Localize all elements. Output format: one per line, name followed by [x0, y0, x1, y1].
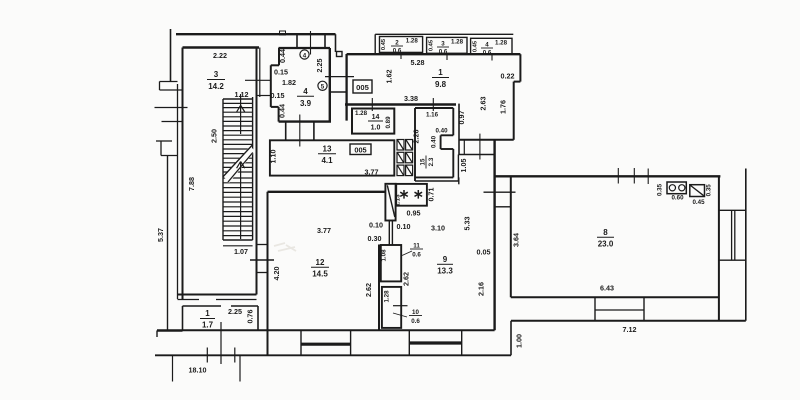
hall 005 left wall: [345, 54, 347, 121]
svg-text:3.10: 3.10: [431, 224, 445, 233]
svg-text:1.07: 1.07: [234, 247, 248, 256]
room 8 top wall: [495, 175, 721, 177]
bathroom labels: [395, 188, 436, 218]
bottom dimension ticks: [173, 322, 241, 382]
svg-text:2.62: 2.62: [402, 272, 411, 286]
svg-text:0.10: 0.10: [397, 222, 411, 231]
step wall from main bottom to room 8 block: [510, 321, 512, 356]
room 13 labels: [269, 145, 379, 177]
closet 3 box: [427, 37, 467, 53]
svg-text:10: 10: [412, 309, 419, 316]
svg-text:2.16: 2.16: [477, 282, 486, 296]
lobby walls below room 4: [286, 115, 314, 147]
svg-text:2.22: 2.22: [213, 51, 227, 60]
room 12 right wall: [378, 245, 380, 331]
tick room 10 right wall: [393, 305, 408, 307]
room 9 label: [437, 255, 453, 276]
wall top outer: [176, 31, 336, 35]
closet ticks: [401, 52, 492, 61]
svg-text:0.22: 0.22: [501, 72, 515, 81]
svg-text:1.12: 1.12: [235, 90, 249, 99]
circled 4: [300, 50, 309, 59]
left facade stub c: [156, 141, 178, 156]
svg-text:0.44: 0.44: [278, 49, 287, 63]
svg-text:1.05: 1.05: [459, 159, 468, 173]
svg-text:5: 5: [321, 84, 325, 91]
wall neck below shaft: [389, 220, 392, 245]
room 14 box: [352, 109, 394, 134]
svg-text:3.77: 3.77: [317, 226, 331, 235]
ticks on hall bottom wall: [372, 98, 433, 111]
entry door ticks stair to room 12: [250, 245, 274, 273]
tick corridor lower: [257, 95, 271, 97]
room 4 bottom wall: [279, 120, 331, 122]
ticks on room 8 top wall: [618, 168, 648, 184]
svg-text:3.9: 3.9: [300, 99, 312, 108]
corridor wall right of room 9: [484, 140, 516, 330]
faint stamp watermark: [274, 243, 296, 251]
room 4 left wall notched: [271, 48, 279, 122]
wall left outer stub top: [170, 29, 172, 82]
svg-text:0.40: 0.40: [431, 135, 438, 148]
closet 3 labels: [429, 39, 464, 56]
room 3 top wall: [183, 46, 260, 48]
svg-text:0.45: 0.45: [692, 199, 705, 206]
room 8 right wall with window niche: [719, 169, 746, 321]
svg-text:9.8: 9.8: [435, 80, 447, 89]
svg-text:1.28: 1.28: [495, 40, 508, 47]
room 4 top wall: [279, 47, 331, 49]
long bottom interior wall line: [157, 329, 495, 331]
room 10 label with leader: [384, 290, 423, 325]
svg-text:2.63: 2.63: [479, 97, 488, 111]
svg-text:0.89: 0.89: [385, 116, 392, 129]
svg-text:0.6: 0.6: [412, 252, 421, 259]
svg-text:6.43: 6.43: [600, 284, 614, 293]
svg-text:7.12: 7.12: [623, 325, 637, 334]
svg-text:5.28: 5.28: [411, 58, 425, 67]
svg-text:1.62: 1.62: [385, 70, 394, 84]
svg-text:2.26: 2.26: [412, 130, 421, 144]
left facade tick: [155, 107, 188, 109]
svg-text:0.6: 0.6: [393, 48, 402, 55]
closet strip top line: [375, 34, 513, 53]
door wall room4 to hall: [325, 77, 354, 92]
corridor labels: [368, 221, 411, 244]
hall right wall with 0.22 step: [514, 54, 521, 140]
svg-text:0.15: 0.15: [274, 68, 288, 77]
svg-text:3: 3: [214, 70, 219, 79]
closet 4 box: [471, 38, 512, 54]
svg-text:8: 8: [603, 228, 608, 237]
svg-text:3.38: 3.38: [404, 94, 418, 103]
svg-text:1.08: 1.08: [381, 249, 388, 262]
staircase: [223, 94, 255, 246]
svg-text:3.77: 3.77: [365, 168, 379, 177]
room 3 left wall: [178, 48, 183, 300]
svg-text:1.28: 1.28: [355, 110, 368, 117]
room 3 bottom wall: [178, 295, 257, 300]
vent shaft squares: [397, 140, 413, 176]
svg-text:0.44: 0.44: [278, 104, 287, 118]
apartment number 005 upper: [353, 80, 372, 93]
svg-text:7.88: 7.88: [187, 177, 196, 191]
svg-text:0.35: 0.35: [657, 183, 664, 196]
room 11 box: [381, 245, 401, 281]
svg-text:3.64: 3.64: [512, 233, 521, 247]
left facade stub b: [162, 121, 183, 123]
svg-text:2.62: 2.62: [364, 283, 373, 297]
svg-text:15: 15: [420, 158, 427, 165]
room 4 right wall: [329, 48, 331, 122]
hall room 1 label: [432, 68, 449, 89]
bottom exterior wall: [155, 354, 511, 356]
room 8 bottom wall with window: [511, 297, 746, 321]
svg-text:1.28: 1.28: [451, 39, 464, 46]
apartment number 005 lower: [350, 144, 371, 155]
svg-text:0.71: 0.71: [427, 188, 436, 202]
room 15 labels: [412, 112, 449, 169]
room 3 right wall: [257, 48, 260, 295]
svg-text:0.76: 0.76: [246, 310, 255, 324]
svg-text:0.6: 0.6: [411, 318, 420, 325]
svg-text:0.97: 0.97: [457, 111, 466, 125]
svg-text:3: 3: [441, 41, 445, 48]
bathroom box: [396, 184, 427, 206]
svg-text:0.05: 0.05: [477, 248, 491, 257]
svg-text:0.6: 0.6: [483, 50, 492, 57]
tick between stair and room 4: [245, 79, 270, 81]
svg-text:4: 4: [303, 52, 307, 59]
room 1 small label: [200, 309, 215, 330]
room 10 box: [382, 287, 401, 328]
svg-text:1.28: 1.28: [384, 290, 391, 303]
window room 12: [301, 330, 351, 355]
svg-text:0.10: 0.10: [369, 221, 383, 230]
stove dims: [657, 183, 713, 205]
svg-text:4.1: 4.1: [321, 156, 333, 165]
room 14 labels: [355, 110, 392, 132]
svg-text:0.45: 0.45: [429, 39, 435, 51]
svg-text:0.35: 0.35: [705, 184, 712, 197]
room 12 labels: [311, 226, 331, 279]
hall top wall: [347, 53, 521, 55]
vestibule walls 1.05: [458, 104, 495, 181]
svg-text:2.50: 2.50: [210, 129, 219, 143]
svg-text:0.95: 0.95: [407, 209, 421, 218]
stove symbol: [667, 182, 686, 194]
svg-text:9: 9: [443, 255, 448, 264]
svg-text:1.7: 1.7: [202, 321, 214, 330]
room 1 small box bottom left: [183, 306, 259, 331]
left outer wall lower: [157, 156, 183, 338]
room 8 label: [597, 228, 614, 249]
svg-text:4: 4: [485, 42, 489, 49]
svg-text:1.28: 1.28: [406, 38, 419, 45]
room 13 box: [270, 140, 394, 175]
svg-text:0.40: 0.40: [435, 128, 448, 135]
room 11 label with leader: [381, 243, 424, 262]
svg-text:11: 11: [413, 243, 420, 250]
closet 4 labels: [473, 40, 508, 57]
svg-text:0.6: 0.6: [439, 49, 448, 56]
circled 5: [318, 81, 327, 90]
closet 2 box: [380, 37, 423, 53]
porch wall right: [324, 34, 326, 48]
svg-text:5.37: 5.37: [156, 228, 165, 242]
svg-text:2.3: 2.3: [428, 157, 435, 166]
room 4 label: [297, 87, 314, 108]
svg-text:18.10: 18.10: [189, 366, 207, 375]
svg-text:14: 14: [372, 114, 380, 121]
svg-text:1.13: 1.13: [395, 194, 402, 207]
closet wall horizontal: [459, 139, 514, 141]
svg-text:5.33: 5.33: [463, 217, 472, 231]
svg-text:1.82: 1.82: [282, 78, 296, 87]
room 8 left wall: [510, 176, 512, 297]
svg-text:0.60: 0.60: [671, 194, 684, 201]
svg-text:14.2: 14.2: [208, 82, 224, 91]
room 3 label: [207, 70, 225, 91]
svg-text:005: 005: [354, 146, 366, 155]
porch dimension tick: [310, 31, 312, 55]
svg-text:1.76: 1.76: [499, 100, 508, 114]
svg-text:0.45: 0.45: [473, 40, 479, 52]
svg-text:1: 1: [205, 309, 210, 318]
svg-text:0.15: 0.15: [271, 91, 285, 100]
closet 2 labels: [381, 38, 418, 55]
svg-text:2: 2: [395, 40, 399, 47]
svg-text:2.25: 2.25: [228, 307, 242, 316]
window room 9: [409, 330, 461, 355]
svg-text:4.20: 4.20: [272, 267, 281, 281]
svg-text:12: 12: [316, 258, 325, 267]
room 15 outline: [415, 108, 459, 184]
svg-text:1.16: 1.16: [426, 112, 439, 119]
svg-text:1.00: 1.00: [515, 334, 524, 348]
porch wall left: [296, 34, 298, 48]
svg-text:0.45: 0.45: [381, 38, 387, 50]
svg-text:1: 1: [438, 68, 443, 77]
room 12 top wall: [268, 191, 386, 193]
svg-text:2.25: 2.25: [315, 59, 324, 73]
svg-text:0.30: 0.30: [368, 234, 382, 243]
svg-text:14.5: 14.5: [312, 270, 328, 279]
sink symbol: [690, 185, 705, 197]
left facade stub a: [160, 82, 183, 91]
svg-text:13: 13: [323, 145, 332, 154]
chimney shaft with diagonal: [385, 184, 395, 221]
svg-text:23.0: 23.0: [598, 240, 614, 249]
svg-text:13.3: 13.3: [437, 267, 453, 276]
svg-text:005: 005: [356, 83, 369, 92]
svg-text:1.0: 1.0: [371, 125, 381, 132]
svg-text:1.10: 1.10: [269, 150, 278, 164]
room 12 left wall: [267, 192, 269, 356]
svg-text:4: 4: [303, 87, 308, 96]
wall top right corner with vent box: [336, 34, 343, 56]
hall bottom thick wall: [345, 103, 456, 106]
